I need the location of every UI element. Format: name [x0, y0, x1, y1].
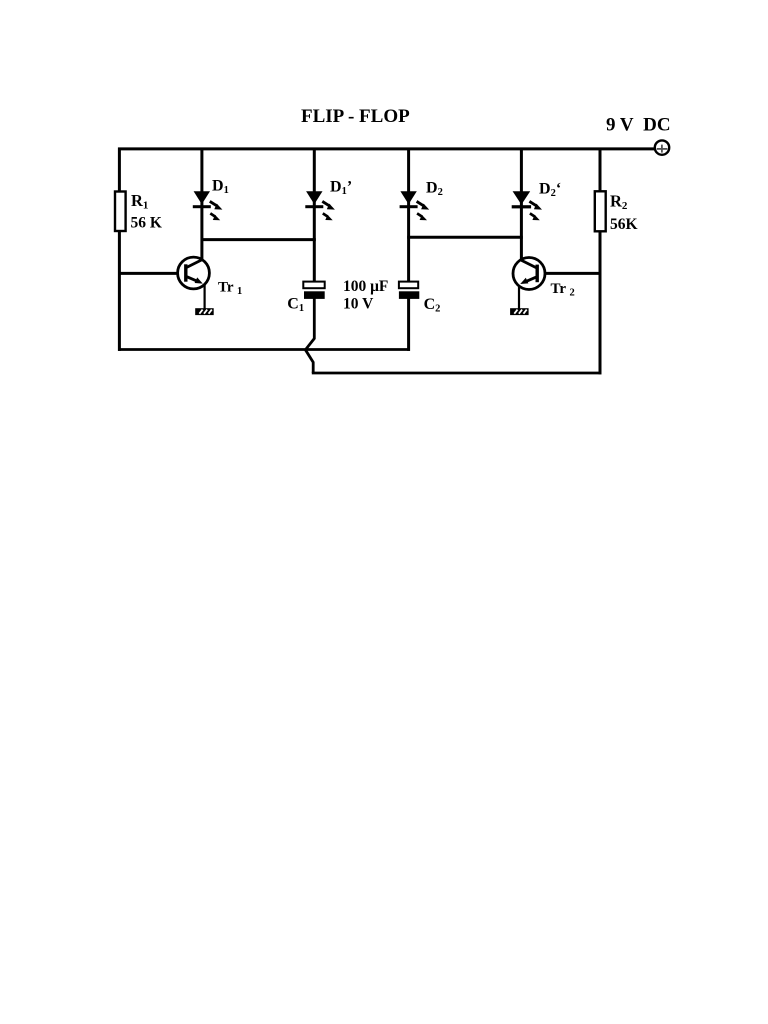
capacitor C2: [399, 282, 419, 299]
svg-text:9 V DC: 9 V DC: [606, 115, 671, 136]
wire Tr2 base lead: [545, 272, 602, 275]
svg-text:10 V: 10 V: [343, 295, 374, 312]
wire D1' branch upper: [313, 148, 316, 283]
wire bottom rail left (left rail to C2): [118, 348, 410, 351]
wire Tr2 emitter to ground: [518, 286, 520, 308]
svg-text:D2‘: D2‘: [539, 180, 561, 199]
LED D2: [400, 191, 430, 220]
capacitor C1: [303, 282, 324, 299]
wire C2 to bottom rail: [407, 299, 410, 351]
positive supply terminal: [655, 140, 669, 154]
wire top power rail: [118, 147, 655, 150]
wire left rail upper: [118, 148, 121, 194]
wire D1 branch / Tr1 collector: [200, 148, 203, 260]
LED D1': [305, 191, 335, 220]
wire left rail lower: [118, 231, 121, 351]
svg-text:56K: 56K: [610, 216, 638, 233]
resistor R1: [115, 192, 126, 232]
wire cross-coupling D2 node to Tr2 collector: [407, 236, 523, 239]
ground Tr2 emitter: [510, 308, 528, 315]
wire Tr1 emitter to ground: [204, 285, 206, 309]
transistor Tr1: [178, 257, 210, 289]
svg-text:D1’: D1’: [330, 178, 352, 197]
wire cross-coupling Tr1 collector to D1' node: [201, 238, 316, 241]
LED D1: [193, 191, 223, 220]
svg-text:56 K: 56 K: [131, 215, 162, 232]
transistor Tr2: [513, 258, 545, 290]
wire Tr1 base lead: [118, 272, 178, 275]
wire D2 branch upper: [407, 148, 410, 283]
wire bottom cross wire C1 node to Tr2 base rail: [312, 372, 602, 375]
svg-text:FLIP - FLOP: FLIP - FLOP: [301, 106, 410, 127]
resistor R2: [595, 191, 606, 231]
ground Tr1 emitter: [195, 308, 214, 315]
wire right rail lower: [599, 231, 602, 374]
LED D2': [512, 191, 542, 220]
wire D2' branch / Tr2 collector: [520, 148, 523, 261]
wire right rail upper: [599, 148, 602, 194]
wire C1 to bottom rail with hop over crossing wire: [305, 299, 314, 374]
svg-text:100 μF: 100 μF: [343, 278, 388, 295]
